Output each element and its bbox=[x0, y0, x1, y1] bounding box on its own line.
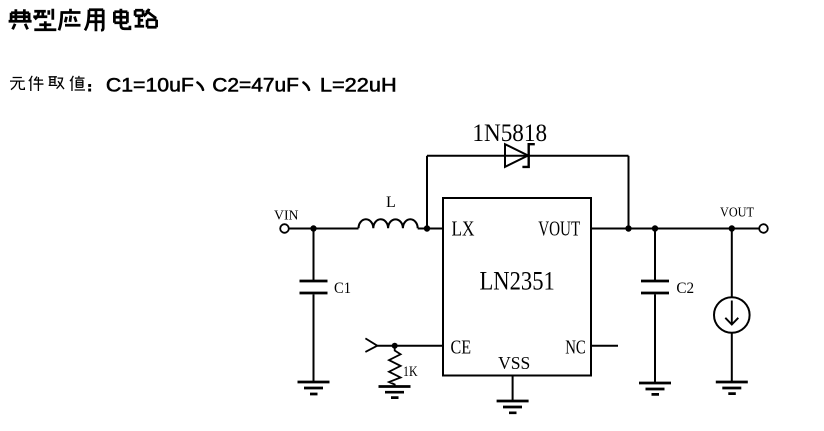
svg-text:1N5818: 1N5818 bbox=[472, 120, 547, 147]
current source I1 arrow bbox=[725, 301, 738, 325]
wire CE bbox=[377, 345, 443, 347]
wire junction up to diode rail bbox=[426, 156, 428, 229]
ground below C1 bbox=[298, 382, 330, 394]
title 典型应用电路 (hand-drawn CJK strokes) bbox=[9, 9, 157, 32]
ideographic comma 、 bbox=[198, 83, 204, 90]
wire C2 top bbox=[654, 229, 656, 281]
svg-text:L: L bbox=[386, 194, 396, 211]
svg-text:C2: C2 bbox=[676, 280, 694, 297]
svg-text:C1=10uF: C1=10uF bbox=[106, 75, 194, 96]
wire top rail through diode bbox=[427, 155, 629, 157]
svg-text:LN2351: LN2351 bbox=[480, 266, 555, 295]
svg-text:LX: LX bbox=[452, 217, 475, 241]
diode D1 1N5818 triangle bbox=[505, 144, 528, 167]
wire load bottom bbox=[731, 333, 733, 381]
svg-text:VIN: VIN bbox=[274, 209, 299, 224]
svg-text:CE: CE bbox=[451, 337, 472, 359]
svg-text:VSS: VSS bbox=[498, 353, 530, 373]
svg-text:NC: NC bbox=[565, 337, 586, 359]
ground below R1 bbox=[379, 387, 411, 398]
ideographic comma 、 bbox=[304, 83, 310, 90]
node junction diode/VOUT rail bbox=[625, 225, 631, 231]
svg-text:VOUT: VOUT bbox=[538, 217, 580, 241]
wire C2 to ground bbox=[654, 294, 656, 382]
wire VOUT rail bbox=[591, 228, 759, 230]
wire load top bbox=[731, 229, 733, 298]
svg-text:1K: 1K bbox=[403, 364, 418, 380]
diode D1 schottky cathode bar bbox=[522, 144, 534, 167]
wire NC stub bbox=[591, 345, 618, 347]
wire junction down to C1 bbox=[313, 229, 315, 281]
wire VIN to inductor bbox=[289, 228, 358, 230]
fullwidth colon ： bbox=[88, 84, 91, 92]
wire diode rail down to VOUT rail bbox=[628, 156, 630, 229]
current source I1 circle bbox=[714, 297, 750, 333]
svg-text:C2=47uF: C2=47uF bbox=[212, 75, 299, 96]
wire VSS to ground bbox=[512, 376, 514, 401]
ground below VSS bbox=[497, 401, 529, 413]
node junction C2 bbox=[652, 225, 658, 231]
resistor R1 1K zigzag bbox=[389, 346, 401, 386]
terminal VOUT (open circle) bbox=[759, 224, 768, 233]
wire inductor to LX bbox=[418, 228, 443, 230]
wire C1 to ground bbox=[313, 294, 315, 381]
capacitor C2 plates bbox=[641, 281, 669, 293]
terminal VIN (open circle) bbox=[280, 224, 289, 233]
node junction CE/R1 bbox=[392, 343, 398, 349]
node junction load bbox=[729, 225, 735, 231]
svg-text:C1: C1 bbox=[334, 280, 351, 297]
body text 元件取值 (hand-drawn CJK strokes) bbox=[10, 76, 85, 91]
node junction VIN/C1 bbox=[310, 225, 316, 231]
inductor L bbox=[359, 219, 418, 228]
node junction LX/diode bbox=[424, 225, 430, 231]
arrow input to CE (open arrowhead) bbox=[365, 338, 377, 352]
ground below current source bbox=[716, 382, 748, 394]
capacitor C1 plates bbox=[300, 281, 328, 293]
svg-text:VOUT: VOUT bbox=[720, 205, 754, 220]
svg-text:L=22uH: L=22uH bbox=[320, 75, 397, 96]
ground below C2 bbox=[639, 383, 671, 394]
IC U1 LN2351 box bbox=[443, 198, 591, 376]
